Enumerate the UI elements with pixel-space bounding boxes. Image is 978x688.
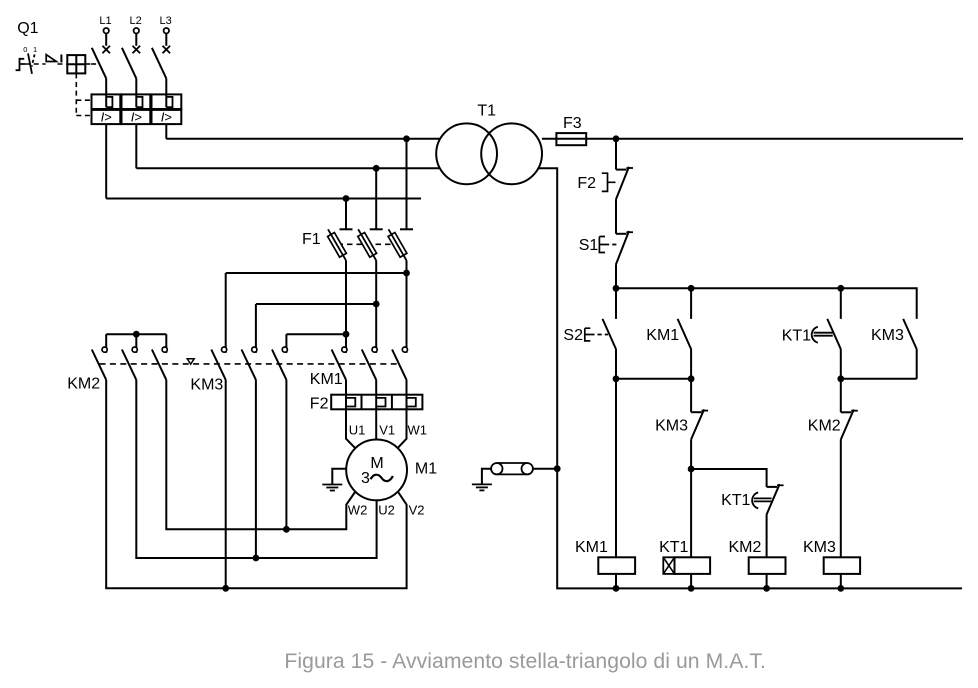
svg-text:W2: W2 [348, 503, 368, 518]
svg-text:KM3: KM3 [655, 418, 688, 435]
svg-text:S2: S2 [563, 327, 583, 344]
svg-text:KM3: KM3 [803, 539, 836, 556]
svg-text:KT1: KT1 [782, 327, 811, 344]
svg-text:S1: S1 [579, 237, 599, 254]
svg-text:W1: W1 [408, 423, 428, 438]
svg-text:KM1: KM1 [575, 539, 608, 556]
svg-text:KT1: KT1 [659, 539, 688, 556]
svg-text:I>: I> [161, 109, 172, 124]
svg-text:I>: I> [131, 109, 142, 124]
svg-text:Q1: Q1 [17, 20, 38, 37]
svg-text:KM1: KM1 [646, 327, 679, 344]
svg-text:3: 3 [361, 470, 370, 487]
svg-text:F2: F2 [310, 395, 329, 412]
svg-text:F1: F1 [302, 231, 321, 248]
svg-text:L3: L3 [160, 15, 172, 27]
svg-text:KM3: KM3 [190, 377, 223, 394]
svg-text:U1: U1 [349, 423, 366, 438]
svg-text:Figura 15 - Avviamento stella-: Figura 15 - Avviamento stella-triangolo … [284, 650, 766, 673]
svg-text:0: 0 [23, 45, 27, 54]
svg-text:M: M [370, 455, 383, 472]
svg-text:V1: V1 [379, 423, 395, 438]
svg-text:1: 1 [33, 45, 37, 54]
svg-text:KM3: KM3 [871, 327, 904, 344]
svg-text:V2: V2 [409, 503, 425, 518]
svg-text:KM2: KM2 [808, 418, 841, 435]
svg-text:T1: T1 [477, 102, 496, 119]
svg-text:KT1: KT1 [721, 492, 750, 509]
svg-text:KM2: KM2 [729, 539, 762, 556]
svg-text:F3: F3 [563, 115, 582, 132]
svg-text:L2: L2 [130, 15, 142, 27]
svg-text:L1: L1 [99, 15, 111, 27]
svg-text:I>: I> [101, 109, 112, 124]
svg-text:F2: F2 [577, 175, 596, 192]
svg-text:KM1: KM1 [310, 371, 343, 388]
svg-text:M1: M1 [415, 461, 437, 478]
svg-text:U2: U2 [378, 503, 395, 518]
svg-text:KM2: KM2 [67, 376, 100, 393]
